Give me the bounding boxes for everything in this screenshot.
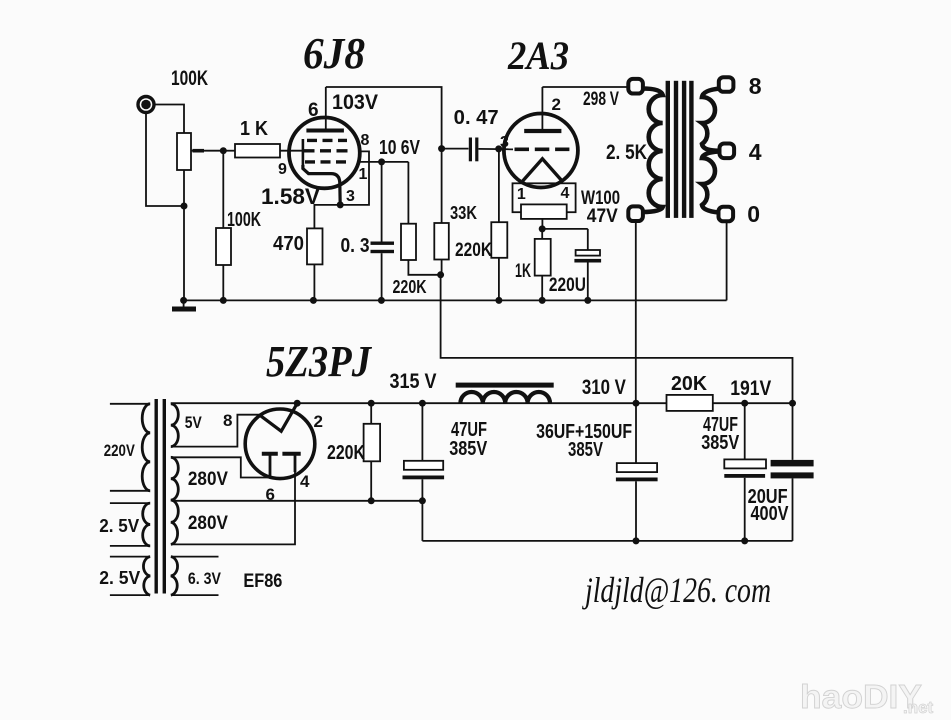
capacitor 20UF 400V [792, 403, 794, 460]
OPT primary winding [642, 89, 663, 213]
svg-text:385V: 385V [449, 438, 488, 460]
wire 1K to 6J8 grid [280, 150, 304, 152]
svg-text:4: 4 [300, 472, 310, 491]
input jack J1 [138, 97, 154, 113]
wire 1K to ground bus [541, 276, 543, 301]
svg-text:6: 6 [308, 100, 319, 121]
svg-text:315 V: 315 V [390, 370, 437, 393]
wire junction to 1K [223, 150, 235, 152]
OPT secondary winding upper [702, 89, 721, 151]
wire 470 to ground bus [313, 264, 315, 300]
wire cathode to 470 resistor [314, 205, 340, 229]
2A3 filament [523, 159, 562, 181]
potentiometer 100K [177, 133, 191, 170]
node B+ feed junction [437, 271, 444, 278]
wire plate top rail [326, 87, 442, 149]
svg-text:9: 9 [278, 161, 287, 178]
wire 280V top lead to pin 6 [172, 457, 269, 477]
OPT secondary terminal 4 [720, 144, 735, 159]
svg-text:8: 8 [223, 411, 232, 430]
svg-text:2. 5K: 2. 5K [606, 141, 647, 164]
node bottom rail junctions [633, 537, 640, 544]
svg-text:.net: .net [903, 698, 934, 717]
wire screen node down through 220K [407, 162, 409, 224]
node 2A3 grid junction [495, 145, 502, 152]
PT primary 220V winding [142, 404, 150, 491]
wire 2.5V upper leads [110, 502, 149, 504]
pot wiper [191, 150, 223, 152]
6J8 plate bar pin 6 [306, 129, 344, 133]
wire grid junction down [498, 149, 500, 222]
resistor 470 cathode [307, 228, 323, 264]
wire W100 wiper [541, 219, 543, 229]
svg-text:4: 4 [561, 185, 570, 202]
OPT primary terminal bottom [628, 206, 643, 221]
wire 220V bottom lead [110, 490, 149, 492]
svg-text:8: 8 [361, 132, 370, 149]
node cathode junction [337, 201, 344, 208]
svg-text:385V: 385V [568, 439, 603, 461]
capacitor 47UF 385V first [421, 403, 423, 461]
svg-text:4: 4 [749, 139, 762, 165]
wire HV center tap return [172, 500, 422, 502]
ground bus [184, 299, 727, 301]
resistor 220K screen feed [401, 224, 416, 260]
node cap1 / CT return junction [419, 497, 426, 504]
svg-text:470: 470 [273, 233, 304, 255]
wire jack to ground junction [146, 113, 182, 207]
svg-text:5Z3PJ: 5Z3PJ [266, 337, 373, 386]
OPT secondary terminal 0 [719, 207, 734, 222]
node bleeder top junction [368, 400, 375, 407]
svg-text:2. 5V: 2. 5V [99, 568, 140, 588]
PT core bars [155, 399, 158, 594]
rectifier tube 5Z3PJ envelope U3 [245, 409, 315, 479]
OPT primary terminal top [628, 79, 643, 94]
wire pin 8 wrap to cathode [341, 151, 369, 205]
6J8 plate stem [325, 87, 327, 131]
svg-text:3: 3 [346, 188, 355, 205]
choke L1 windings [460, 392, 550, 403]
OPT core bars [666, 81, 670, 218]
node cap1 junction [419, 400, 426, 407]
svg-text:0: 0 [747, 201, 760, 227]
svg-text:2. 5V: 2. 5V [99, 516, 139, 536]
wire 0.3 cap to ground bus [381, 253, 383, 300]
svg-text:jldjld@126. com: jldjld@126. com [582, 570, 771, 610]
svg-text:400V: 400V [751, 503, 790, 525]
wire 220V top lead [110, 403, 149, 405]
svg-text:191V: 191V [730, 377, 771, 400]
watermark haoDIY.net [800, 678, 934, 717]
capacitor 0.3 plate top [371, 242, 395, 245]
ground symbol [183, 300, 185, 307]
svg-text:20K: 20K [671, 373, 708, 395]
5Z3 plate bars pins 6 and 4 [262, 452, 278, 456]
wire coupling cap to 2A3 grid [479, 148, 514, 150]
hum pot W100 [521, 204, 567, 219]
PT 6.3V winding [171, 557, 178, 596]
svg-text:10 6V: 10 6V [379, 137, 421, 159]
node jack/pot junction [181, 203, 188, 210]
svg-text:1 K: 1 K [240, 118, 268, 140]
resistor 100K grid [216, 228, 231, 265]
capacitor 0.47 coupling [469, 138, 472, 162]
op tube 6J8 envelope U1 [289, 117, 360, 188]
6J8 grid dashes row 2 [304, 149, 349, 152]
6J8 cathode [303, 165, 340, 205]
OPT secondary terminal 8 [719, 77, 734, 92]
svg-text:1.58V: 1.58V [261, 184, 320, 209]
svg-text:220U: 220U [549, 275, 586, 296]
svg-text:310 V: 310 V [582, 376, 626, 399]
capacitor 220U top plate [587, 229, 589, 250]
svg-text:220K: 220K [327, 442, 365, 464]
node wiper junction [220, 147, 227, 154]
power tube 2A3 envelope U2 [504, 114, 578, 188]
wire junction to bypass cap [542, 228, 588, 230]
capacitor 47UF 385V second [744, 403, 746, 459]
wire OPT 0 terminal to ground bus [726, 222, 728, 301]
2A3 plate bar pin 2 [524, 129, 561, 133]
svg-text:103V: 103V [332, 91, 378, 114]
wire B+ drop to 310V rail [441, 275, 793, 403]
svg-text:220K: 220K [455, 240, 492, 261]
capacitor 220U bottom plate [574, 259, 601, 263]
wire 33K to B+ junction [441, 260, 443, 275]
PSU bottom return rail [422, 540, 792, 542]
capacitor 36UF+150UF [635, 403, 637, 463]
PT 280V winding upper [171, 457, 179, 500]
node 191V rail corner junction [789, 400, 796, 407]
resistor 220K bleeder [370, 403, 372, 424]
wire wiper junction down to grid resistor [222, 151, 224, 228]
wire 5V bottom lead to pin 8 [172, 415, 261, 447]
svg-text:8: 8 [749, 73, 762, 99]
svg-text:1K: 1K [515, 261, 531, 282]
node cathode return junction [539, 225, 546, 232]
PT 2.5V winding lower [143, 557, 150, 596]
svg-text:0. 47: 0. 47 [454, 107, 499, 129]
svg-text:6J8: 6J8 [303, 29, 365, 78]
OPT secondary winding lower [702, 152, 719, 213]
PT 280V winding lower [171, 500, 178, 544]
svg-text:6. 3V: 6. 3V [188, 569, 222, 588]
node bleeder bottom junction [368, 497, 375, 504]
wire jack to pot top [154, 105, 184, 135]
svg-text:100K: 100K [227, 209, 261, 231]
5Z3 plate stems [269, 454, 272, 478]
5Z3 filament [259, 403, 297, 431]
svg-text:280V: 280V [188, 469, 228, 490]
svg-text:2: 2 [552, 95, 561, 114]
svg-text:EF86: EF86 [243, 571, 282, 592]
resistor 220K 2A3 grid [491, 222, 507, 258]
wire 6.3V leads [172, 556, 219, 558]
wire pin 1 screen node [359, 161, 408, 163]
svg-text:1: 1 [359, 166, 368, 183]
resistor 33K plate load [434, 223, 449, 260]
6J8 grid dashes row 1 [307, 139, 347, 142]
node cap3 junction [741, 400, 748, 407]
wire OPT primary bottom to 310V [635, 221, 637, 403]
wire 220K grid to ground bus [498, 258, 500, 301]
svg-text:2: 2 [314, 412, 323, 431]
6J8 grid dashes row 3 [305, 160, 348, 163]
2A3 grid dashed line [515, 148, 570, 152]
node screen junction [378, 158, 385, 165]
svg-text:47V: 47V [587, 206, 618, 227]
resistor 1K 2A3 cathode [541, 229, 543, 239]
2A3 plate stem [541, 87, 543, 131]
svg-text:385V: 385V [701, 432, 740, 454]
choke core bar [456, 383, 554, 388]
capacitor 0.3 plate bottom [371, 250, 395, 253]
wire screen junction to bypass cap [381, 162, 383, 242]
svg-text:0. 3: 0. 3 [341, 235, 370, 257]
PT 2.5V winding upper [143, 503, 151, 546]
filament pins frame [513, 183, 576, 212]
svg-text:220V: 220V [104, 441, 136, 460]
svg-text:280V: 280V [188, 513, 228, 534]
svg-text:2A3: 2A3 [507, 33, 569, 78]
svg-text:100K: 100K [171, 67, 208, 90]
svg-text:298 V: 298 V [583, 89, 619, 110]
wire plate node to coupling cap [442, 148, 469, 150]
main 315V rail [171, 402, 667, 404]
wire grid resistor to ground bus [222, 265, 224, 300]
node 310V junction [633, 400, 640, 407]
resistor 20K series [667, 395, 713, 411]
svg-text:5V: 5V [185, 413, 203, 432]
svg-text:220K: 220K [393, 277, 427, 297]
svg-text:1: 1 [517, 186, 526, 203]
svg-text:6: 6 [266, 485, 275, 504]
6J8 grid bracket [302, 139, 305, 168]
node pin2/5V junction [294, 400, 301, 407]
wire 220K bottom link [408, 260, 440, 275]
resistor 1K grid stopper [235, 144, 280, 158]
wire 2.5V lower leads [110, 556, 149, 558]
node ground bus junctions [180, 297, 187, 304]
wire 2A3 plate to OPT [542, 86, 628, 88]
svg-text:33K: 33K [450, 203, 477, 223]
wire plate node to 33K [441, 149, 443, 223]
wire pot bottom to ground bus [183, 170, 185, 300]
wire 220U to ground bus [587, 263, 589, 301]
node plate/coupling junction [438, 145, 445, 152]
wire 280V bottom lead to pin 4 [172, 470, 295, 544]
PT 5V winding [171, 404, 179, 447]
